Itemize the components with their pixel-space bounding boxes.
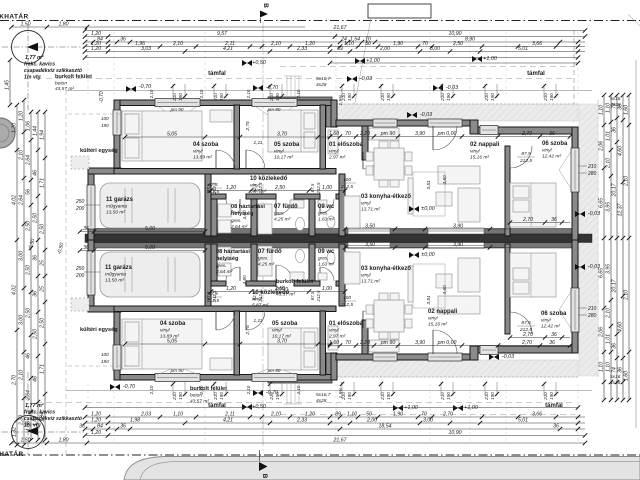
title block rectangle bbox=[368, 4, 431, 18]
svg-text:1,77 m²: 1,77 m² bbox=[25, 55, 44, 61]
bath fixtures 07 (lower unit) bbox=[258, 246, 305, 280]
dim chain bottom y443 bbox=[9, 437, 587, 445]
car in garage (upper unit) bbox=[100, 183, 200, 228]
svg-text:pm 90: pm 90 bbox=[380, 340, 396, 346]
road edge line bbox=[140, 462, 640, 480]
svg-text:pm 90: pm 90 bbox=[267, 368, 281, 373]
window spec labels bottom g bbox=[484, 392, 495, 401]
svg-text:210: 210 bbox=[587, 164, 597, 170]
svg-text:±0,00: ±0,00 bbox=[421, 252, 434, 258]
svg-text:2,20: 2,20 bbox=[359, 340, 370, 346]
svg-text:2,10: 2,10 bbox=[246, 89, 251, 99]
door arc eloszoba->konyha (upper unit) bbox=[363, 152, 380, 169]
dining table (upper unit) bbox=[366, 141, 412, 187]
level mark +-0,00 upper bbox=[409, 206, 435, 212]
interior dim row garage bottom upper bbox=[78, 226, 207, 234]
construction guide line x=336 bbox=[335, 32, 337, 98]
svg-text:vinyl: vinyl bbox=[329, 149, 340, 155]
level mark -0,70 bottom a bbox=[110, 384, 135, 390]
dim chain bottom y429 bbox=[79, 423, 585, 431]
window dim rotated 219/190 upper left wall bbox=[101, 116, 109, 128]
window spec stub lines bottom bbox=[171, 382, 558, 396]
window 06 szoba east wall (lower unit) bbox=[571, 288, 579, 332]
label burkolt felulet bottom bbox=[190, 386, 227, 405]
svg-text:gres.: gres. bbox=[231, 218, 242, 224]
svg-text:1,00: 1,00 bbox=[322, 185, 332, 191]
dashed site line left vertical bbox=[65, 90, 67, 455]
window konyha (lower unit) bbox=[480, 346, 498, 355]
room label 01 előszoba bbox=[328, 142, 364, 161]
svg-text:vinyl: vinyl bbox=[160, 328, 171, 334]
level mark +0,50 top bbox=[242, 60, 266, 66]
wardrobe 04 szoba (lower unit) bbox=[210, 358, 232, 370]
stair label top bbox=[316, 76, 331, 88]
svg-text:70: 70 bbox=[422, 41, 428, 47]
svg-text:1,90: 1,90 bbox=[393, 41, 403, 47]
svg-text:1,10: 1,10 bbox=[173, 411, 183, 417]
svg-text:04 szoba: 04 szoba bbox=[193, 142, 219, 148]
svg-text:4,60: 4,60 bbox=[617, 146, 623, 156]
svg-text:vinyl: vinyl bbox=[329, 328, 340, 334]
svg-text:89: 89 bbox=[335, 411, 341, 417]
window 04 szoba (lower unit) bbox=[155, 374, 200, 382]
party wall flanking band upper bbox=[88, 229, 578, 235]
svg-text:1,60: 1,60 bbox=[623, 105, 629, 115]
dim chain top y63 bbox=[328, 61, 580, 65]
stair label bottom bbox=[316, 392, 331, 404]
dim chain right x623 bbox=[617, 93, 625, 402]
washer 08 (upper unit) bbox=[218, 204, 231, 217]
svg-text:burkolt felület: burkolt felület bbox=[276, 279, 313, 285]
svg-text:87,5: 87,5 bbox=[310, 291, 315, 300]
wall 09 east (lower unit) bbox=[339, 244, 345, 306]
svg-text:műgyanta: műgyanta bbox=[105, 272, 126, 278]
level mark +1,00 bottom a bbox=[393, 405, 418, 411]
wardrobe 04 szoba (upper unit) bbox=[210, 110, 232, 122]
svg-text:13,89 m²: 13,89 m² bbox=[193, 155, 212, 161]
svg-text:06 szoba: 06 szoba bbox=[542, 141, 568, 147]
garage east wall (lower unit) bbox=[205, 244, 211, 306]
door height label 87,5/212,5 a bbox=[204, 182, 222, 195]
rotated window dims bottom wall bbox=[149, 385, 301, 395]
svg-text:5x16,7: 5x16,7 bbox=[316, 76, 331, 82]
svg-text:4,60: 4,60 bbox=[242, 275, 248, 285]
door arc 06 szoba (lower unit) bbox=[510, 312, 532, 334]
svg-text:vinyl: vinyl bbox=[272, 328, 283, 334]
level mark -0,03 top a bbox=[347, 76, 372, 82]
svg-text:15,16 m²: 15,16 m² bbox=[470, 155, 489, 161]
svg-text:burkolt felület: burkolt felület bbox=[190, 386, 227, 392]
window label 210/280 right upper bbox=[578, 164, 597, 177]
dim chain top y42 bbox=[83, 36, 585, 44]
wall 05|01 eloszoba (upper unit) bbox=[320, 105, 326, 169]
dim chain top y27 bbox=[9, 21, 305, 29]
property boundary line top (TELEKHATAR) bbox=[0, 20, 640, 22]
svg-text:01 előszoba: 01 előszoba bbox=[329, 321, 364, 327]
dashed level line top a bbox=[280, 66, 575, 68]
svg-text:1,71: 1,71 bbox=[39, 364, 45, 374]
interior dim row konyha upper bbox=[343, 223, 510, 231]
tv cabinet nappali (lower unit) bbox=[408, 266, 413, 302]
step wall between blocks (lower unit) bbox=[331, 353, 337, 380]
svg-text:07 fürdő: 07 fürdő bbox=[274, 204, 298, 210]
svg-text:190: 190 bbox=[275, 93, 280, 101]
svg-text:43,57 m²: 43,57 m² bbox=[190, 399, 209, 405]
room label 05 szoba bbox=[274, 142, 300, 161]
bed 06 szoba (lower unit) bbox=[510, 253, 556, 297]
garage door (upper unit) bbox=[87, 185, 95, 229]
svg-text:1,94: 1,94 bbox=[39, 130, 45, 140]
window spec labels bottom f bbox=[440, 392, 451, 401]
svg-text:36: 36 bbox=[611, 127, 617, 133]
door arc 05 szoba (lower unit) bbox=[246, 311, 265, 330]
room label 02 nappali bbox=[470, 142, 500, 161]
svg-text:pm 90: pm 90 bbox=[267, 107, 281, 112]
bed 05 szoba (lower unit) bbox=[268, 328, 318, 370]
svg-text:212,5: 212,5 bbox=[340, 302, 353, 308]
svg-text:2,10: 2,10 bbox=[18, 150, 24, 161]
svg-text:2,70: 2,70 bbox=[442, 411, 453, 417]
svg-text:10,90: 10,90 bbox=[449, 430, 462, 436]
exterior wall north left block (lower unit) bbox=[114, 375, 336, 381]
svg-text:±0,00: ±0,00 bbox=[421, 206, 434, 212]
svg-text:5x16,7: 5x16,7 bbox=[316, 392, 331, 398]
svg-text:100: 100 bbox=[343, 295, 351, 301]
window konyha (upper unit) bbox=[480, 126, 498, 135]
svg-text:13,71 m²: 13,71 m² bbox=[361, 279, 380, 285]
party wall bbox=[85, 234, 592, 243]
dim chain left x45 bbox=[39, 110, 47, 442]
level mark -0,70 bottom b bbox=[253, 390, 278, 396]
svg-text:3,70: 3,70 bbox=[277, 131, 287, 137]
door height label 87,5/212,5 c bbox=[204, 291, 222, 304]
svg-text:1,44: 1,44 bbox=[32, 416, 38, 426]
svg-text:2,33: 2,33 bbox=[296, 417, 307, 423]
door height label 100/212,5 b bbox=[338, 295, 356, 308]
dashed vertical line top right bbox=[573, 30, 575, 122]
svg-text:4,60: 4,60 bbox=[242, 210, 248, 220]
svg-text:-0,03: -0,03 bbox=[446, 85, 458, 91]
dim chain top y37 bbox=[83, 31, 587, 39]
svg-text:támfal: támfal bbox=[208, 71, 226, 77]
svg-text:13,50 m²: 13,50 m² bbox=[106, 210, 125, 216]
level mark -0,03 top c bbox=[407, 112, 432, 118]
kulteri egyseg dashed box (upper unit) bbox=[71, 156, 89, 169]
svg-text:pm 0,00: pm 0,00 bbox=[437, 340, 457, 346]
svg-text:4,60: 4,60 bbox=[617, 322, 623, 332]
level mark +1,00 top a bbox=[355, 58, 380, 64]
svg-text:pm 90: pm 90 bbox=[170, 107, 184, 112]
soakaway label bottom bbox=[24, 403, 82, 429]
svg-text:06 szoba: 06 szoba bbox=[541, 311, 567, 317]
svg-text:3,90: 3,90 bbox=[453, 242, 463, 248]
construction guide line x=578 bbox=[577, 32, 579, 98]
svg-text:2,64: 2,64 bbox=[25, 155, 31, 166]
svg-text:1,10: 1,10 bbox=[344, 41, 354, 47]
dim chain left x31 bbox=[25, 110, 33, 442]
svg-text:212,5: 212,5 bbox=[212, 182, 217, 195]
svg-text:2,00: 2,00 bbox=[379, 46, 390, 52]
room label 08 haztartasi (upper) bbox=[230, 204, 265, 230]
room label 03 konyha-étkező bbox=[361, 266, 411, 285]
svg-text:3,03: 3,03 bbox=[141, 46, 151, 52]
svg-text:5,87 m²: 5,87 m² bbox=[252, 303, 269, 309]
room label 05 szoba bbox=[272, 321, 298, 340]
rug nappali (lower unit) bbox=[413, 264, 445, 308]
svg-text:2,70: 2,70 bbox=[11, 375, 17, 386]
svg-text:vinyl: vinyl bbox=[361, 201, 372, 207]
svg-text:4x28: 4x28 bbox=[316, 398, 327, 404]
svg-text:46: 46 bbox=[32, 170, 38, 176]
svg-text:21,67: 21,67 bbox=[333, 437, 348, 443]
exterior wall north right block a (lower unit) bbox=[336, 354, 473, 360]
wall nappali|06 szoba (upper unit) bbox=[505, 146, 510, 236]
svg-text:3,90: 3,90 bbox=[415, 131, 425, 137]
kitchen appliances (lower unit) bbox=[369, 340, 399, 352]
door arc eloszoba->konyha (lower unit) bbox=[363, 311, 380, 328]
wall nappali|06 szoba (lower unit) bbox=[505, 244, 510, 334]
interior dim 06 bottom upper bbox=[508, 217, 570, 225]
svg-text:helyiség: helyiség bbox=[216, 256, 239, 262]
party wall windows band upper bbox=[348, 228, 390, 234]
svg-text:280: 280 bbox=[587, 313, 597, 319]
interior dim row bedrooms lower bbox=[123, 338, 332, 346]
svg-text:műgyanta: műgyanta bbox=[106, 204, 127, 210]
svg-text:36: 36 bbox=[551, 217, 557, 223]
room label 06 szoba bbox=[541, 311, 567, 330]
svg-text:2,10: 2,10 bbox=[270, 41, 281, 47]
terrace hatch bottom right bbox=[332, 360, 578, 377]
svg-text:3,95: 3,95 bbox=[605, 202, 611, 212]
terrace strip right of building bbox=[579, 104, 598, 376]
svg-text:10,17 m²: 10,17 m² bbox=[274, 155, 293, 161]
svg-text:190: 190 bbox=[386, 392, 391, 400]
window 04 szoba (upper unit) bbox=[155, 99, 200, 107]
svg-text:11 garázs: 11 garázs bbox=[105, 265, 133, 271]
door arc 10 kozlekedo->07 (upper unit) bbox=[276, 199, 292, 215]
svg-text:2,33: 2,33 bbox=[296, 46, 307, 52]
svg-text:1,00: 1,00 bbox=[322, 286, 332, 292]
level mark +1,00 top b bbox=[472, 56, 497, 62]
svg-text:2,10: 2,10 bbox=[605, 308, 611, 319]
svg-text:1,20: 1,20 bbox=[226, 286, 236, 292]
window spec labels bottom e bbox=[380, 392, 391, 401]
svg-text:1,11: 1,11 bbox=[254, 318, 263, 324]
svg-text:2,64 m²: 2,64 m² bbox=[230, 224, 248, 230]
room label 02 nappali bbox=[428, 309, 458, 328]
svg-text:11 garázs: 11 garázs bbox=[106, 197, 134, 203]
svg-text:1,06: 1,06 bbox=[25, 421, 31, 431]
svg-text:212,5: 212,5 bbox=[519, 158, 532, 164]
svg-text:46: 46 bbox=[32, 376, 38, 382]
window spec labels bottom d bbox=[341, 392, 352, 401]
door height label 100/212,5 a bbox=[338, 177, 356, 190]
svg-text:1,63 m²: 1,63 m² bbox=[318, 217, 335, 223]
svg-text:2,97 m²: 2,97 m² bbox=[328, 334, 346, 340]
svg-text:6,65: 6,65 bbox=[598, 268, 604, 278]
dim chain right x604 bbox=[598, 93, 606, 402]
exterior wall north 06 szoba (lower unit) bbox=[478, 346, 578, 353]
svg-text:87,5: 87,5 bbox=[310, 183, 315, 192]
wc fixtures 09 (lower unit) bbox=[318, 252, 335, 280]
exterior wall north right block b (upper unit) bbox=[470, 120, 478, 134]
svg-text:190: 190 bbox=[347, 93, 352, 101]
svg-text:5x16: 5x16 bbox=[610, 374, 621, 380]
svg-text:250: 250 bbox=[75, 266, 85, 272]
road surface bottom bbox=[124, 457, 640, 480]
svg-text:+1,00: +1,00 bbox=[404, 405, 418, 411]
svg-text:21,67: 21,67 bbox=[333, 25, 348, 31]
svg-text:212,5: 212,5 bbox=[316, 182, 321, 195]
svg-text:pm 90: pm 90 bbox=[170, 368, 184, 373]
svg-text:100: 100 bbox=[343, 177, 351, 183]
svg-text:vinyl: vinyl bbox=[542, 148, 553, 154]
level mark -0,03 right lower bbox=[575, 264, 600, 270]
wall 08 west (lower unit) bbox=[211, 244, 217, 281]
eloszoba cabinet (upper unit) bbox=[328, 130, 338, 154]
svg-text:2,10: 2,10 bbox=[172, 41, 183, 47]
wall 04|05 szoba (upper unit) bbox=[234, 105, 240, 169]
svg-text:támfal: támfal bbox=[545, 403, 563, 409]
svg-text:burkolt felület: burkolt felület bbox=[55, 74, 92, 80]
svg-text:2,50: 2,50 bbox=[32, 329, 38, 340]
svg-text:36: 36 bbox=[32, 255, 38, 261]
svg-text:190: 190 bbox=[178, 392, 183, 400]
svg-text:5,01: 5,01 bbox=[518, 46, 528, 52]
soakaway circle top-left bbox=[2, 24, 84, 112]
svg-text:4x28: 4x28 bbox=[316, 82, 327, 88]
svg-text:gres.: gres. bbox=[216, 263, 227, 269]
wall bedrooms south (lower unit) bbox=[114, 306, 336, 312]
svg-text:1,80: 1,80 bbox=[58, 437, 68, 443]
retaining wall steps top bbox=[268, 76, 335, 127]
svg-text:87,5: 87,5 bbox=[206, 183, 211, 192]
dashed level line bottom a bbox=[280, 414, 575, 416]
svg-text:03 konyha-étkező: 03 konyha-étkező bbox=[361, 194, 411, 200]
svg-text:2,50: 2,50 bbox=[452, 41, 463, 47]
door arc 04 szoba (upper unit) bbox=[216, 150, 235, 169]
svg-text:212,5: 212,5 bbox=[316, 290, 321, 303]
window 05 szoba (lower unit) bbox=[252, 374, 297, 382]
door arc 08 haztartasi (upper unit) bbox=[226, 199, 240, 213]
svg-text:-0,70: -0,70 bbox=[139, 84, 151, 90]
svg-text:vinyl: vinyl bbox=[428, 316, 439, 322]
svg-text:1,06: 1,06 bbox=[25, 121, 31, 131]
svg-text:36: 36 bbox=[549, 340, 555, 346]
svg-text:TELEKHATÁR: TELEKHATÁR bbox=[0, 449, 24, 458]
svg-text:3,95: 3,95 bbox=[605, 264, 611, 274]
garage window label 250/200 upper bbox=[75, 199, 100, 212]
svg-text:212,5: 212,5 bbox=[212, 290, 217, 303]
svg-text:4,02: 4,02 bbox=[11, 285, 17, 295]
construction guide line x=205 bbox=[204, 32, 206, 98]
svg-text:4,60: 4,60 bbox=[442, 175, 448, 185]
svg-text:2,50: 2,50 bbox=[32, 213, 38, 224]
svg-text:2,64: 2,64 bbox=[25, 390, 31, 401]
svg-text:02 nappali: 02 nappali bbox=[428, 309, 458, 315]
svg-text:+1,00: +1,00 bbox=[483, 56, 497, 62]
svg-text:1,20: 1,20 bbox=[226, 185, 236, 191]
svg-text:08 háztartási: 08 háztartási bbox=[231, 204, 265, 210]
svg-text:1,60: 1,60 bbox=[329, 131, 339, 137]
svg-text:190: 190 bbox=[347, 392, 352, 400]
svg-text:4,21: 4,21 bbox=[223, 417, 233, 423]
level mark -0,03 right upper bbox=[575, 211, 600, 217]
room label 06 szoba bbox=[542, 141, 568, 160]
svg-text:-0,03: -0,03 bbox=[360, 76, 372, 82]
svg-text:190: 190 bbox=[446, 93, 451, 101]
window west bedroom (upper unit) bbox=[113, 110, 121, 135]
svg-text:100: 100 bbox=[101, 116, 109, 121]
dim chain left x24 bbox=[18, 98, 26, 447]
svg-text:36: 36 bbox=[551, 332, 557, 338]
svg-text:43,57 m²: 43,57 m² bbox=[55, 86, 74, 92]
kitchen counter (upper unit) bbox=[344, 196, 360, 228]
svg-text:B: B bbox=[262, 3, 269, 8]
dashed level line bottom b bbox=[36, 402, 575, 404]
svg-text:2,10: 2,10 bbox=[623, 176, 629, 187]
svg-text:vinyl: vinyl bbox=[470, 149, 481, 155]
wall corridor block top (lower unit) bbox=[211, 281, 226, 286]
washer 08 (lower unit) bbox=[218, 263, 231, 276]
right margin line bbox=[635, 60, 637, 428]
eloszoba cabinet (lower unit) bbox=[328, 326, 338, 350]
svg-text:4,25 m²: 4,25 m² bbox=[258, 262, 275, 268]
interior dim row rooms upper bbox=[209, 185, 347, 193]
garage east wall (upper unit) bbox=[205, 174, 211, 236]
exterior wall north left block (upper unit) bbox=[114, 100, 336, 106]
svg-text:04 szoba: 04 szoba bbox=[160, 321, 186, 327]
svg-text:2,10: 2,10 bbox=[296, 385, 301, 395]
level mark +-0,00 lower bbox=[409, 252, 435, 258]
door arc 05 szoba (upper unit) bbox=[246, 150, 265, 169]
room label 04 szoba bbox=[160, 321, 186, 340]
door arc 04 szoba (lower unit) bbox=[216, 311, 235, 330]
svg-text:3,00: 3,00 bbox=[18, 315, 24, 325]
window west bedroom (lower unit) bbox=[113, 345, 121, 370]
svg-text:20,17: 20,17 bbox=[611, 182, 617, 197]
svg-text:2,10: 2,10 bbox=[246, 385, 251, 395]
interior dim row konyha lower bbox=[343, 242, 510, 250]
window spec labels bottom a bbox=[172, 392, 183, 401]
svg-text:01 előszoba: 01 előszoba bbox=[329, 142, 364, 148]
svg-text:100: 100 bbox=[101, 352, 109, 357]
wall bedrooms south (upper unit) bbox=[114, 169, 336, 175]
svg-text:70: 70 bbox=[345, 131, 351, 137]
exterior wall north right block b (lower unit) bbox=[470, 346, 478, 360]
site line lower bbox=[66, 390, 592, 392]
level mark +1,00 bottom b bbox=[453, 405, 478, 411]
svg-text:3,51: 3,51 bbox=[426, 295, 432, 305]
svg-text:5,00: 5,00 bbox=[145, 245, 155, 251]
svg-text:2,10: 2,10 bbox=[18, 370, 24, 381]
dim chain top y46 bbox=[83, 41, 585, 49]
dim chain top y52 bbox=[83, 46, 585, 54]
wall garage / kulteri egyseg (lower unit) bbox=[88, 306, 121, 312]
svg-text:190: 190 bbox=[101, 359, 109, 364]
window spec labels top a bbox=[172, 93, 183, 102]
exterior wall north 06 szoba (upper unit) bbox=[478, 127, 578, 134]
svg-text:1,10: 1,10 bbox=[598, 105, 604, 115]
car in garage (lower unit) bbox=[100, 252, 200, 297]
svg-text:1,44: 1,44 bbox=[32, 126, 38, 136]
wall 08 west (upper unit) bbox=[211, 199, 217, 236]
svg-text:87,5: 87,5 bbox=[206, 291, 211, 300]
svg-text:2,06: 2,06 bbox=[598, 141, 604, 152]
svg-text:3,00: 3,00 bbox=[18, 251, 24, 261]
svg-text:02 nappali: 02 nappali bbox=[470, 142, 500, 148]
step wall between blocks (upper unit) bbox=[331, 100, 337, 127]
